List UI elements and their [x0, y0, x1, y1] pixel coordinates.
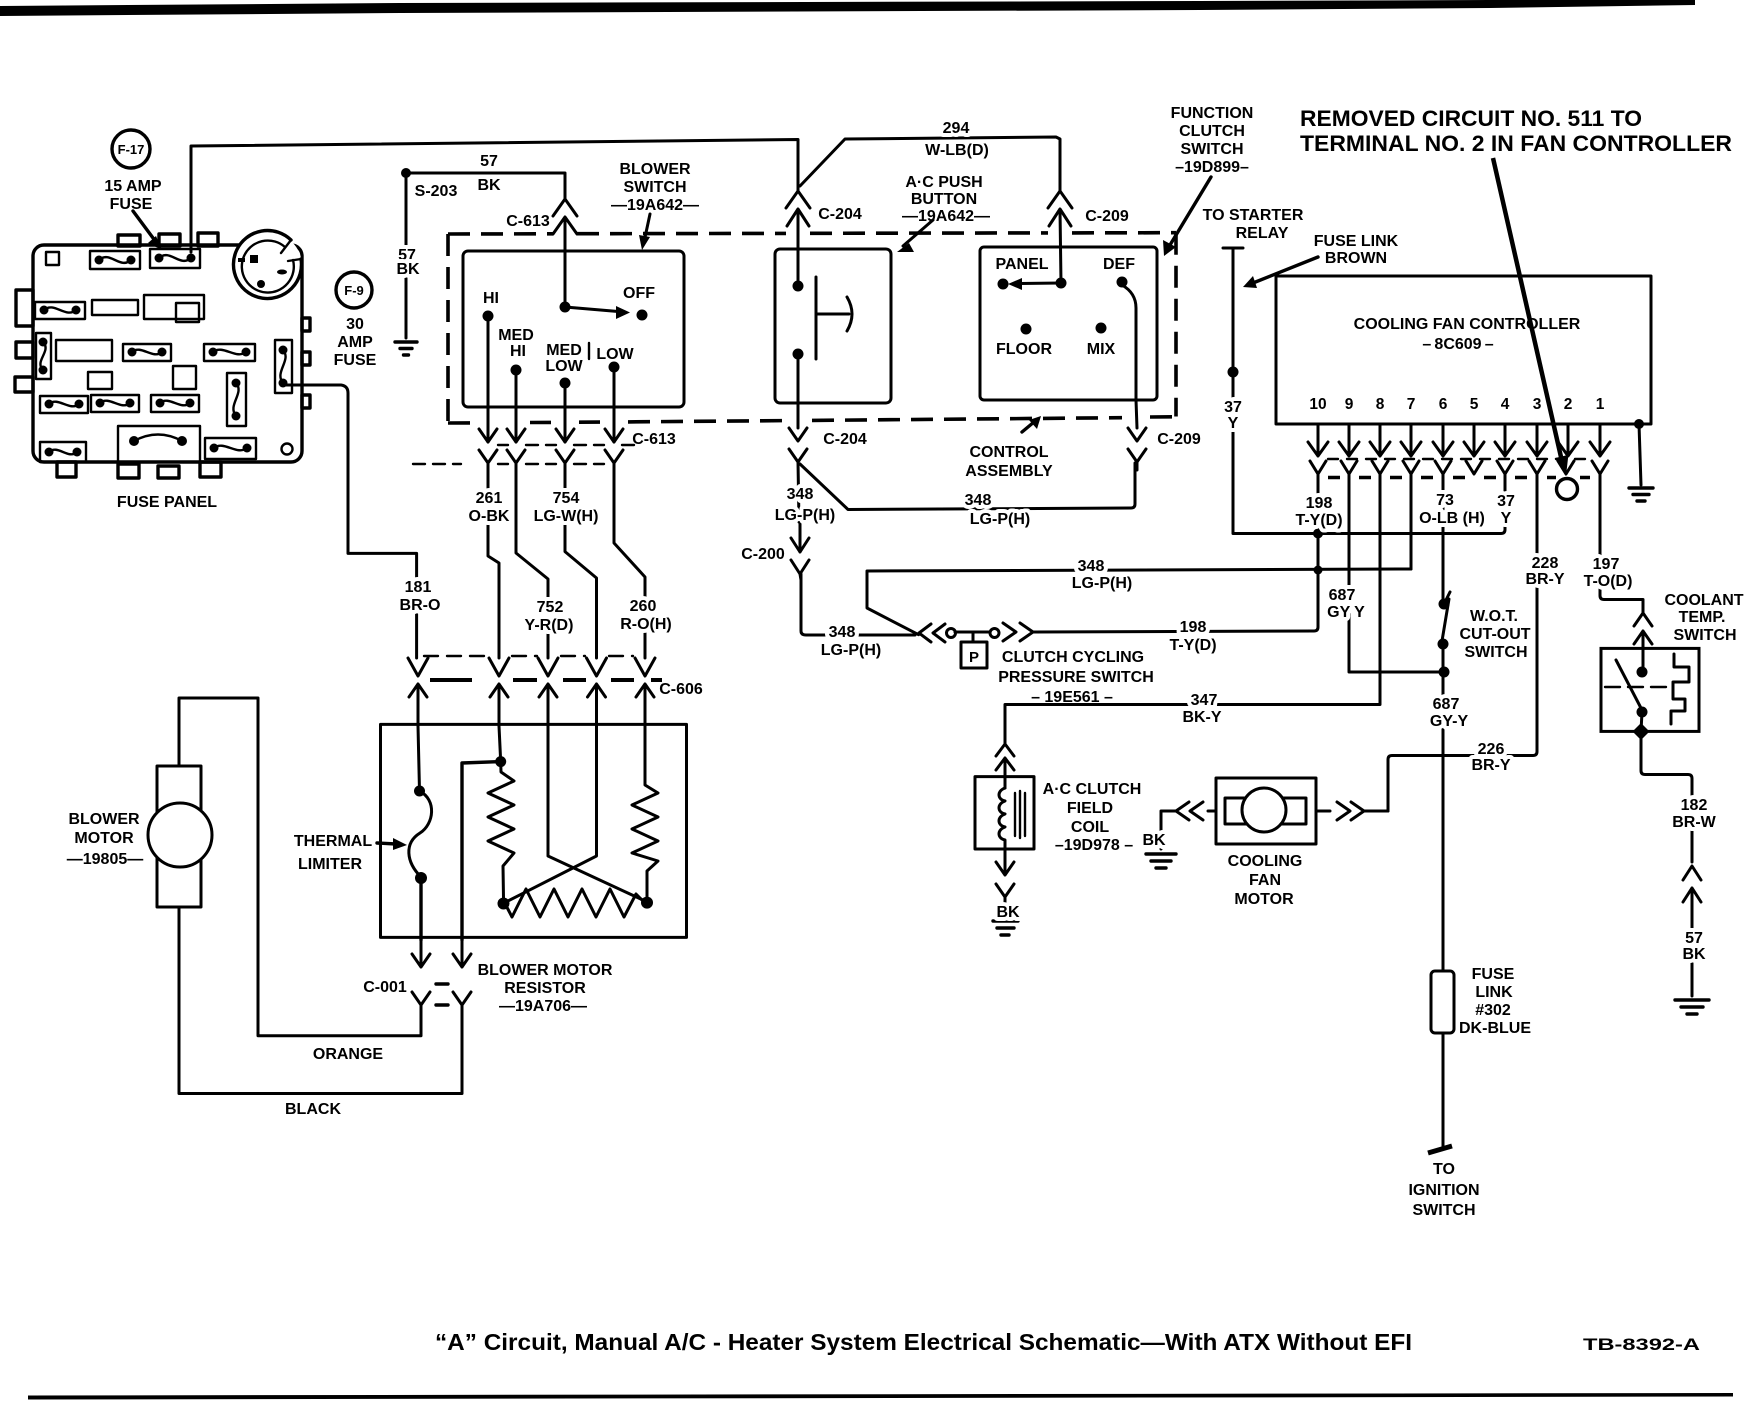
svg-text:—19A642—: —19A642— — [611, 197, 699, 214]
svg-text:SWITCH: SWITCH — [1180, 141, 1243, 158]
svg-text:O-BK: O-BK — [469, 508, 510, 525]
svg-text:C-001: C-001 — [363, 979, 407, 996]
svg-text:182: 182 — [1681, 797, 1708, 814]
svg-text:9: 9 — [1345, 396, 1354, 413]
svg-text:197: 197 — [1593, 556, 1620, 573]
svg-text:3: 3 — [1533, 396, 1542, 413]
svg-text:BR-Y: BR-Y — [1525, 571, 1564, 588]
svg-text:BR-W: BR-W — [1672, 814, 1716, 831]
svg-text:CLUTCH: CLUTCH — [1179, 123, 1245, 140]
svg-text:BK: BK — [1682, 946, 1706, 963]
svg-text:Y: Y — [1228, 415, 1239, 432]
svg-text:MIX: MIX — [1087, 341, 1116, 358]
svg-text:Y-R(D): Y-R(D) — [525, 617, 574, 634]
svg-text:T-Y(D): T-Y(D) — [1169, 637, 1216, 654]
svg-text:R-O(H): R-O(H) — [620, 616, 672, 633]
svg-text:TEMP.: TEMP. — [1679, 609, 1726, 626]
svg-text:181: 181 — [405, 579, 432, 596]
svg-text:C-613: C-613 — [506, 213, 550, 230]
svg-text:348: 348 — [965, 492, 992, 509]
svg-text:TERMINAL NO. 2 IN FAN CONTROLL: TERMINAL NO. 2 IN FAN CONTROLLER — [1300, 131, 1732, 156]
svg-text:A·C CLUTCH: A·C CLUTCH — [1043, 781, 1142, 798]
svg-text:HI: HI — [483, 290, 499, 307]
svg-text:C-209: C-209 — [1085, 208, 1129, 225]
svg-text:TO: TO — [1433, 1161, 1455, 1178]
svg-text:FUSE: FUSE — [1472, 966, 1515, 983]
svg-text:GY Y: GY Y — [1327, 604, 1365, 621]
svg-text:73: 73 — [1436, 492, 1454, 509]
svg-text:5: 5 — [1470, 396, 1479, 413]
svg-text:—19A642—: —19A642— — [902, 208, 990, 225]
svg-text:COOLING: COOLING — [1228, 853, 1303, 870]
svg-text:THERMAL: THERMAL — [294, 833, 372, 850]
svg-text:8: 8 — [1376, 396, 1385, 413]
svg-text:DEF: DEF — [1103, 256, 1135, 273]
svg-text:7: 7 — [1407, 396, 1416, 413]
svg-text:LG-P(H): LG-P(H) — [970, 511, 1030, 528]
svg-text:754: 754 — [553, 490, 580, 507]
svg-text:—19805—: —19805— — [67, 851, 144, 868]
svg-text:226: 226 — [1478, 741, 1505, 758]
svg-text:SWITCH: SWITCH — [1673, 627, 1736, 644]
svg-text:348: 348 — [1078, 558, 1105, 575]
svg-text:SWITCH: SWITCH — [1464, 644, 1527, 661]
svg-text:FUNCTION: FUNCTION — [1171, 105, 1254, 122]
svg-text:BR-O: BR-O — [400, 597, 441, 614]
svg-text:CLUTCH CYCLING: CLUTCH CYCLING — [1002, 649, 1144, 666]
svg-text:T-Y(D): T-Y(D) — [1295, 512, 1342, 529]
svg-text:348: 348 — [787, 486, 814, 503]
svg-text:C-613: C-613 — [632, 431, 676, 448]
svg-text:BK: BK — [396, 261, 420, 278]
svg-text:4: 4 — [1501, 396, 1510, 413]
svg-text:OFF: OFF — [623, 285, 655, 302]
svg-text:37: 37 — [1497, 493, 1515, 510]
svg-text:–19D978 –: –19D978 – — [1055, 837, 1133, 854]
svg-text:260: 260 — [630, 598, 657, 615]
svg-text:– 19E561 –: – 19E561 – — [1031, 689, 1113, 706]
svg-text:294: 294 — [943, 120, 970, 137]
svg-text:PANEL: PANEL — [995, 256, 1048, 273]
svg-text:MOTOR: MOTOR — [74, 830, 134, 847]
svg-text:CONTROL: CONTROL — [969, 444, 1048, 461]
svg-text:AMP: AMP — [337, 334, 373, 351]
svg-text:SWITCH: SWITCH — [1412, 1202, 1475, 1219]
svg-text:—19A706—: —19A706— — [499, 998, 587, 1015]
svg-text:F-17: F-17 — [118, 142, 145, 157]
svg-text:MED: MED — [498, 327, 534, 344]
svg-text:C-209: C-209 — [1157, 431, 1201, 448]
svg-text:COOLING FAN CONTROLLER: COOLING FAN CONTROLLER — [1354, 316, 1581, 333]
svg-text:ORANGE: ORANGE — [313, 1046, 384, 1063]
svg-text:LINK: LINK — [1475, 984, 1513, 1001]
svg-text:BUTTON: BUTTON — [911, 191, 977, 208]
svg-text:C-200: C-200 — [741, 546, 785, 563]
svg-text:LIMITER: LIMITER — [298, 856, 362, 873]
svg-text:BK: BK — [1142, 832, 1166, 849]
svg-text:LG-P(H): LG-P(H) — [1072, 575, 1132, 592]
svg-text:#302: #302 — [1475, 1002, 1511, 1019]
svg-text:37: 37 — [1224, 399, 1242, 416]
svg-text:RESISTOR: RESISTOR — [504, 980, 586, 997]
svg-text:FUSE PANEL: FUSE PANEL — [117, 494, 217, 511]
svg-text:687: 687 — [1433, 696, 1460, 713]
svg-text:TB-8392-A: TB-8392-A — [1583, 1335, 1700, 1354]
svg-text:COIL: COIL — [1071, 819, 1109, 836]
svg-text:–19D899–: –19D899– — [1175, 159, 1249, 176]
svg-text:GY-Y: GY-Y — [1430, 713, 1469, 730]
svg-text:DK-BLUE: DK-BLUE — [1459, 1020, 1531, 1037]
svg-text:348: 348 — [829, 624, 856, 641]
svg-text:752: 752 — [537, 599, 564, 616]
svg-text:SWITCH: SWITCH — [623, 179, 686, 196]
svg-text:MOTOR: MOTOR — [1234, 891, 1294, 908]
svg-text:MED: MED — [546, 342, 582, 359]
svg-text:347: 347 — [1191, 692, 1218, 709]
svg-text:S-203: S-203 — [415, 183, 458, 200]
svg-text:COOLANT: COOLANT — [1664, 592, 1743, 609]
svg-text:REMOVED CIRCUIT NO. 511 TO: REMOVED CIRCUIT NO. 511 TO — [1300, 106, 1642, 131]
svg-text:BR-Y: BR-Y — [1471, 757, 1510, 774]
svg-text:1: 1 — [1596, 396, 1605, 413]
svg-text:BLOWER: BLOWER — [68, 811, 140, 828]
svg-text:BROWN: BROWN — [1325, 250, 1387, 267]
svg-text:2: 2 — [1564, 396, 1573, 413]
svg-text:F-9: F-9 — [344, 283, 364, 298]
svg-text:C-204: C-204 — [823, 431, 867, 448]
svg-text:ASSEMBLY: ASSEMBLY — [965, 463, 1053, 480]
svg-text:W-LB(D): W-LB(D) — [925, 142, 989, 159]
svg-text:BLOWER MOTOR: BLOWER MOTOR — [478, 962, 613, 979]
svg-text:BK-Y: BK-Y — [1182, 709, 1221, 726]
svg-text:FUSE LINK: FUSE LINK — [1314, 233, 1399, 250]
svg-text:BK: BK — [477, 177, 501, 194]
svg-text:W.O.T.: W.O.T. — [1470, 608, 1518, 625]
svg-text:T-O(D): T-O(D) — [1584, 573, 1633, 590]
svg-text:10: 10 — [1309, 396, 1326, 413]
svg-text:687: 687 — [1329, 587, 1356, 604]
svg-text:LG-P(H): LG-P(H) — [775, 507, 835, 524]
svg-text:O-LB (H): O-LB (H) — [1419, 510, 1485, 527]
svg-text:HI: HI — [510, 343, 526, 360]
svg-text:FUSE: FUSE — [110, 196, 153, 213]
svg-text:Y: Y — [1501, 510, 1512, 527]
svg-text:57: 57 — [1685, 930, 1703, 947]
svg-text:“A” Circuit, Manual A/C - Heat: “A” Circuit, Manual A/C - Heater System … — [435, 1329, 1412, 1355]
svg-text:15 AMP: 15 AMP — [104, 178, 162, 195]
svg-text:LOW: LOW — [596, 346, 634, 363]
svg-text:57: 57 — [480, 153, 498, 170]
svg-text:30: 30 — [346, 316, 364, 333]
svg-text:261: 261 — [476, 490, 503, 507]
svg-text:FIELD: FIELD — [1067, 800, 1113, 817]
svg-text:198: 198 — [1306, 495, 1333, 512]
svg-text:FAN: FAN — [1249, 872, 1281, 889]
svg-text:C-606: C-606 — [659, 681, 703, 698]
svg-text:FUSE: FUSE — [334, 352, 377, 369]
svg-text:IGNITION: IGNITION — [1408, 1182, 1479, 1199]
svg-text:PRESSURE SWITCH: PRESSURE SWITCH — [998, 669, 1154, 686]
svg-text:RELAY: RELAY — [1236, 225, 1289, 242]
svg-text:– 8C609 –: – 8C609 – — [1422, 336, 1493, 353]
svg-text:LG-W(H): LG-W(H) — [534, 508, 599, 525]
svg-text:A·C PUSH: A·C PUSH — [905, 174, 982, 191]
svg-text:TO STARTER: TO STARTER — [1203, 207, 1304, 224]
svg-text:228: 228 — [1532, 555, 1559, 572]
svg-text:LG-P(H): LG-P(H) — [821, 642, 881, 659]
svg-text:6: 6 — [1439, 396, 1448, 413]
svg-text:P: P — [969, 649, 979, 666]
svg-text:LOW: LOW — [545, 358, 583, 375]
svg-text:CUT-OUT: CUT-OUT — [1459, 626, 1530, 643]
svg-text:198: 198 — [1180, 619, 1207, 636]
svg-text:BLOWER: BLOWER — [619, 161, 691, 178]
svg-text:BLACK: BLACK — [285, 1101, 341, 1118]
svg-text:BK: BK — [996, 904, 1020, 921]
svg-text:FLOOR: FLOOR — [996, 341, 1052, 358]
svg-text:C-204: C-204 — [818, 206, 862, 223]
